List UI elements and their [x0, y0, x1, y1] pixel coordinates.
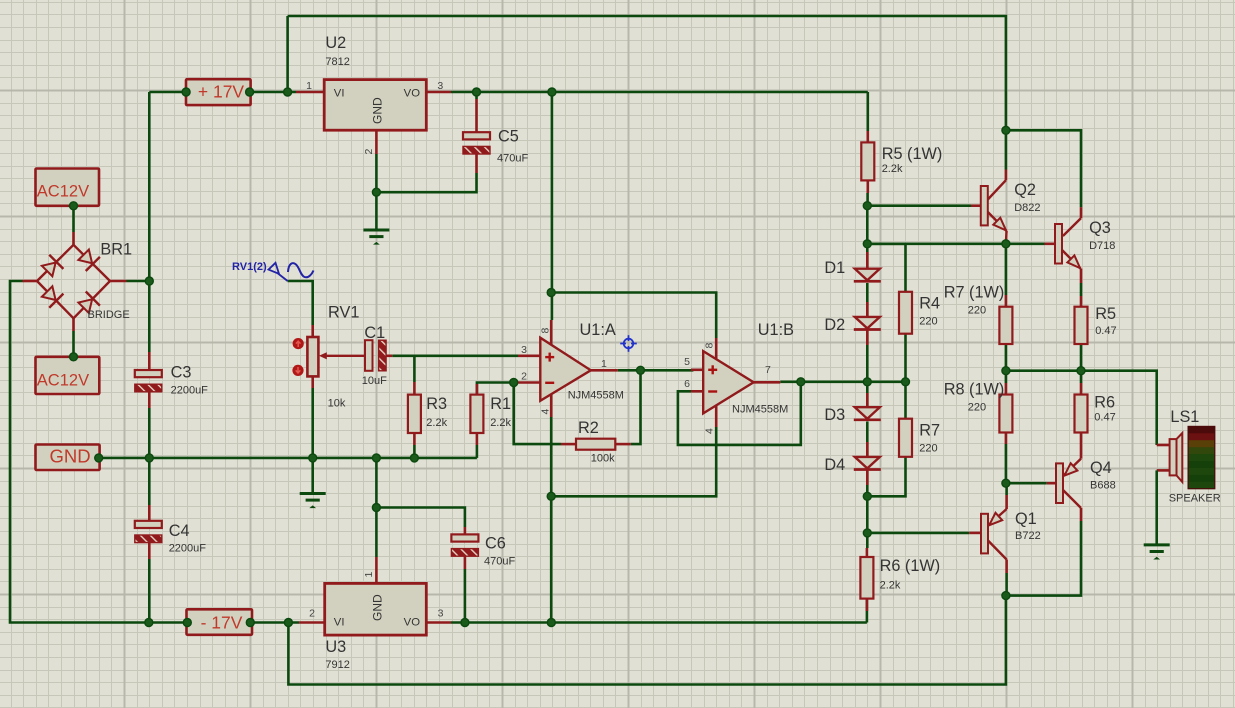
ground symbol U2: [363, 229, 389, 232]
wire R8(1W) column: [1005, 371, 1008, 383]
wire R3 column: [413, 356, 416, 382]
svg-text:AC12V: AC12V: [37, 372, 89, 390]
wire R4 bottom to output row: [904, 334, 907, 382]
svg-text:470uF: 470uF: [497, 153, 528, 165]
wire U1:B pin6 feedback loop: [678, 382, 801, 445]
svg-text:R3: R3: [426, 395, 447, 413]
svg-text:C3: C3: [171, 364, 192, 382]
op-amp U1:B NJM4558M: [691, 338, 780, 427]
regulator U2 7812: [296, 80, 451, 154]
wire R7(1W) column: [1005, 244, 1008, 295]
svg-text:R1: R1: [490, 395, 511, 413]
svg-text:LS1: LS1: [1170, 408, 1199, 426]
svg-text:SPEAKER: SPEAKER: [1169, 493, 1221, 505]
wire left vertical rail (bridge + to C3/C4): [148, 92, 151, 352]
wire bridge right output to rail: [127, 280, 150, 283]
diode D2: [854, 302, 881, 345]
power terminal +17V: [186, 79, 251, 105]
svg-text:2.2k: 2.2k: [880, 580, 901, 592]
node Q3 base node: [863, 240, 871, 248]
transistor Q1 B722 PNP: [969, 495, 1006, 573]
svg-text:1: 1: [363, 572, 375, 578]
svg-text:Q2: Q2: [1014, 181, 1036, 199]
wire R7 top from output row: [904, 382, 907, 419]
svg-text:220: 220: [919, 443, 937, 455]
generator probe RV1(2): [232, 261, 314, 281]
svg-text:7812: 7812: [325, 56, 349, 68]
svg-text:D718: D718: [1089, 240, 1115, 252]
svg-text:BR1: BR1: [100, 241, 132, 259]
potentiometer RV1: [307, 325, 326, 388]
wire U3 pin1 GND net: [375, 458, 378, 557]
svg-text:NJM4558M: NJM4558M: [568, 390, 624, 402]
ground symbol speaker: [1144, 543, 1170, 546]
svg-text:2.2k: 2.2k: [882, 163, 903, 175]
svg-text:0.47: 0.47: [1095, 325, 1116, 337]
svg-text:8: 8: [540, 328, 552, 334]
wire R6(1W) bottom to -17V row: [866, 599, 869, 623]
wire top rail to Q3 collector: [1006, 130, 1081, 207]
transistor Q3 D718 NPN: [1045, 207, 1082, 283]
power terminal GND: [36, 445, 100, 471]
svg-text:VO: VO: [404, 87, 421, 99]
capacitor C3: [135, 352, 162, 408]
svg-text:R7: R7: [919, 422, 940, 440]
RV1 adjust handles: [293, 338, 304, 349]
wire R6 0.47 column: [1080, 371, 1083, 383]
wire pin4 branch to U1:B pin4: [551, 427, 716, 496]
resistor R7 (1W) 220: [999, 295, 1012, 344]
node +17V terminal right: [246, 88, 254, 96]
svg-text:GND: GND: [371, 97, 385, 124]
wire Q1 emitter to bottom node: [1005, 573, 1008, 596]
bridge rectifier BR1: [23, 232, 127, 331]
svg-text:2.2k: 2.2k: [490, 417, 511, 429]
svg-text:6: 6: [684, 378, 690, 390]
svg-text:220: 220: [968, 305, 986, 317]
wire U1:A pin4 column down to -17V row: [550, 417, 553, 623]
ground symbol RV1: [300, 492, 326, 495]
svg-text:C4: C4: [169, 522, 190, 540]
svg-text:U2: U2: [325, 34, 346, 52]
wire R7 bottom loop: [867, 457, 905, 497]
svg-text:VI: VI: [334, 616, 345, 628]
wire C3 to GND row: [148, 408, 151, 505]
node +12V rail / U1 pin8 node: [548, 88, 556, 96]
node U1:A output node: [637, 366, 645, 374]
svg-text:3: 3: [437, 80, 443, 92]
svg-text:B688: B688: [1090, 480, 1116, 492]
wire R5 0.47 column: [1080, 283, 1083, 296]
wire top +17V unregulated rail to output transistors: [288, 16, 1006, 130]
wire C1 to op-amp pin3 row: [392, 354, 518, 357]
wire RV1 bottom to GND row and ground: [311, 388, 314, 493]
node Q1/Q4 bottom node: [1002, 592, 1010, 600]
svg-text:7: 7: [765, 364, 771, 376]
wire VO rail corner down to R5(1W): [866, 92, 869, 131]
node Q2 emitter node: [1002, 240, 1010, 248]
svg-text:U1:B: U1:B: [758, 321, 794, 339]
resistor R5 (1W) 2.2k: [861, 131, 874, 206]
svg-text:10k: 10k: [328, 398, 346, 410]
wire C4 to -17V row: [148, 559, 151, 623]
svg-text:470uF: 470uF: [484, 556, 515, 568]
node R4/R7 node: [902, 378, 910, 386]
wire diode column upper: [866, 206, 869, 269]
wire pin8 branch to U1:B pin8: [551, 293, 716, 339]
wire +17V terminal row: [149, 91, 184, 94]
wire R1 top / op-amp pin2 row: [477, 383, 518, 395]
wire Q3 base row / Q2 emitter row: [867, 243, 1044, 246]
svg-text:C6: C6: [485, 535, 506, 553]
capacitor C5: [463, 99, 490, 173]
svg-text:3: 3: [438, 608, 444, 620]
node R3 gnd node: [410, 454, 418, 462]
resistor R2 100k: [561, 439, 631, 450]
svg-text:RV1: RV1: [328, 304, 359, 322]
svg-text:2: 2: [309, 608, 315, 620]
node U2 VI node: [284, 88, 292, 96]
diode D1: [854, 252, 881, 281]
wire AC12V top to bridge: [72, 206, 75, 232]
node AC12V top pin: [70, 202, 78, 210]
resistor R5 0.47: [1075, 296, 1088, 344]
svg-text:GND: GND: [371, 594, 385, 621]
svg-text:B722: B722: [1015, 530, 1041, 542]
node GND terminal pin: [95, 454, 103, 462]
diode D3: [854, 393, 881, 420]
capacitor C6: [451, 527, 478, 569]
wire GND row: [99, 457, 477, 460]
svg-text:8: 8: [704, 343, 716, 349]
svg-text:AC12V: AC12V: [37, 182, 89, 200]
node Q1 base node: [863, 529, 871, 537]
svg-text:220: 220: [919, 316, 937, 328]
svg-text:R6: R6: [1094, 394, 1115, 412]
wire bridge bottom to AC12V: [72, 331, 75, 357]
svg-text:R6 (1W): R6 (1W): [880, 557, 941, 575]
node -17V terminal left: [183, 619, 191, 627]
node C5 top node: [473, 88, 481, 96]
AC source terminal AC12V top: [36, 169, 100, 206]
resistor R7 220: [899, 419, 912, 457]
wire U2 VO output row: [451, 91, 868, 94]
wire output node row to speaker: [1006, 371, 1157, 445]
svg-text:2: 2: [363, 149, 375, 155]
svg-text:R5: R5: [1095, 305, 1116, 323]
wire probe to RV1 top: [288, 281, 313, 325]
svg-text:1: 1: [601, 358, 607, 370]
svg-text:Q1: Q1: [1015, 510, 1037, 528]
node -17V terminal right: [246, 619, 254, 627]
resistor R4 220: [899, 292, 912, 334]
node C3/C4 gnd node: [145, 454, 153, 462]
wire U1:A pin8 column from +12V row: [551, 92, 554, 320]
svg-text:4: 4: [704, 428, 716, 434]
node pin4 branch node: [547, 492, 555, 500]
svg-text:RV1(2): RV1(2): [232, 261, 267, 273]
svg-text:2: 2: [521, 371, 527, 383]
svg-text:NJM4558M: NJM4558M: [732, 404, 788, 416]
svg-text:GND: GND: [49, 446, 90, 467]
svg-text:5: 5: [684, 356, 690, 368]
node diode bottom node: [863, 492, 871, 500]
svg-text:220: 220: [968, 402, 986, 414]
node U3 pin1 node: [372, 504, 380, 512]
svg-text:D1: D1: [824, 259, 845, 277]
node output node R5/R6: [1077, 367, 1085, 375]
svg-text:+ 17V: + 17V: [198, 82, 245, 102]
svg-text:C5: C5: [498, 128, 519, 146]
node bridge output node: [145, 277, 153, 285]
node output node: [1002, 367, 1010, 375]
node -17V branch node: [284, 619, 292, 627]
svg-text:R8 (1W): R8 (1W): [944, 381, 1005, 399]
svg-text:R5 (1W): R5 (1W): [882, 145, 943, 163]
node Q2 base node: [863, 202, 871, 210]
wire Q1 base row from diode network: [867, 532, 969, 535]
wire Q2 base row: [867, 204, 971, 207]
svg-text:100k: 100k: [591, 453, 615, 465]
wire inverting node to R2: [514, 383, 561, 445]
svg-text:U1:A: U1:A: [580, 321, 616, 339]
wire C5 column and U2 ground link: [475, 92, 478, 99]
power terminal -17V: [187, 609, 253, 635]
transistor Q2 D822 NPN: [971, 170, 1007, 244]
node U3 gnd branch node: [372, 454, 380, 462]
wire diode column lower: [866, 382, 869, 407]
node Q4 base node: [1002, 479, 1010, 487]
node U1 pin4 -17V node: [547, 619, 555, 627]
loudspeaker LS1: [1157, 426, 1215, 544]
wire left -17V rail: [10, 281, 187, 623]
svg-text:D4: D4: [824, 456, 845, 474]
transistor Q4 B688 PNP: [1047, 459, 1081, 521]
node Q2/Q3 collector node: [1002, 126, 1010, 134]
node U2 gnd node: [372, 188, 380, 196]
svg-text:VO: VO: [404, 616, 421, 628]
svg-text:3: 3: [521, 344, 527, 356]
resistor R6 0.47: [1075, 383, 1088, 459]
regulator U3 7912: [299, 557, 451, 635]
svg-text:Q3: Q3: [1089, 219, 1111, 237]
origin marker: [620, 335, 637, 352]
node inverting input node: [510, 379, 518, 387]
capacitor C4: [135, 505, 162, 559]
svg-text:4: 4: [540, 409, 552, 415]
svg-text:2.2k: 2.2k: [426, 417, 447, 429]
svg-text:U3: U3: [325, 638, 346, 656]
wire U1:B output row to diode bias network: [780, 380, 905, 383]
node C4 -17V node: [145, 619, 153, 627]
svg-text:D3: D3: [824, 406, 845, 424]
wire U2 GND pin down to ground: [375, 154, 378, 230]
svg-text:R7 (1W): R7 (1W): [944, 284, 1005, 302]
svg-text:- 17V: - 17V: [201, 613, 243, 633]
svg-text:R2: R2: [578, 419, 599, 437]
wire R4 branch top: [867, 244, 905, 292]
node AC12V bottom pin: [70, 353, 78, 361]
node diode bias mid node: [863, 378, 871, 386]
resistor R6 (1W) 2.2k: [860, 548, 873, 611]
op-amp U1:A NJM4558M: [518, 320, 618, 417]
wire Q4 collector to bottom node: [1006, 521, 1081, 596]
wire Q1 collector to Q4 base node: [1005, 483, 1008, 495]
resistor R1 2.2k: [470, 384, 483, 445]
wire Q4 base row: [1006, 482, 1047, 485]
svg-text:C1: C1: [364, 324, 385, 342]
node C6 -17V node: [461, 619, 469, 627]
wire bottom return to -17V branch: [288, 596, 1006, 685]
node RV1 gnd node: [309, 454, 317, 462]
diode D4: [854, 442, 881, 485]
AC source terminal AC12V bottom: [36, 357, 100, 394]
wire R2 right to output node: [631, 370, 641, 444]
svg-text:BRIDGE: BRIDGE: [88, 309, 130, 321]
svg-text:R4: R4: [919, 295, 940, 313]
svg-text:2200uF: 2200uF: [171, 385, 209, 397]
svg-text:7912: 7912: [325, 659, 349, 671]
node +17V terminal left: [182, 88, 190, 96]
capacitor C1: [365, 340, 392, 371]
svg-text:VI: VI: [334, 87, 345, 99]
wire +17V rail vertical drop to U2 input node: [286, 16, 289, 92]
svg-text:Q4: Q4: [1090, 459, 1112, 477]
svg-text:1: 1: [306, 80, 312, 92]
svg-text:D822: D822: [1014, 202, 1040, 214]
wire Q2 collector top: [1005, 130, 1008, 169]
svg-text:0.47: 0.47: [1094, 412, 1115, 424]
svg-text:2200uF: 2200uF: [169, 543, 207, 555]
wire C6 bottom to -17V row: [464, 569, 467, 623]
svg-text:D2: D2: [824, 316, 845, 334]
node U1:B feedback node: [797, 378, 805, 386]
wire U3 VO row: [451, 621, 867, 624]
resistor R3 2.2k: [408, 382, 421, 445]
svg-text:10uF: 10uF: [362, 375, 387, 387]
wire U1:A output to U1:B pin5: [618, 369, 694, 372]
wire -17V row to U3: [251, 621, 299, 624]
resistor R8 (1W) 220: [999, 383, 1012, 444]
wire R1 bottom to GND row: [476, 445, 479, 458]
node pin8 branch node: [547, 289, 555, 297]
wire RV1 wiper to C1: [324, 355, 365, 357]
